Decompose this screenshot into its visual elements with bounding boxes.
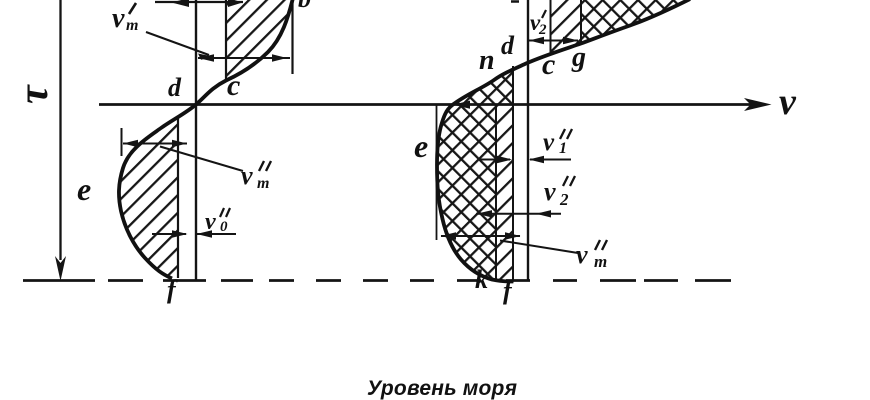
svg-text:c: c [542,48,555,81]
tau arrowhead down [55,256,66,281]
hatched area left profile below axis [119,116,178,279]
v axis arrowhead [744,98,772,111]
v''m dimension arrow right [441,235,520,237]
right profile band line g [580,0,582,44]
hatched band right profile above axis [551,0,582,55]
svg-text:Уровень моря: Уровень моря [367,377,517,400]
v''m dimension arrow left profile [123,143,187,145]
svg-text:v: v [543,129,555,156]
left profile line b [291,0,293,74]
svg-text:v: v [205,209,216,235]
v'm dimension arrow [198,57,290,59]
svg-text:2: 2 [538,22,547,38]
crosshatched lens right profile below axis [437,105,496,281]
top cropped dimension arrow left [155,1,243,3]
svg-text:τ: τ [11,84,57,104]
v'2 dimension arrow [528,40,578,42]
left profile tangent line at e [121,128,123,156]
svg-text:e: e [77,171,91,207]
svg-text:v: v [112,3,125,34]
svg-text:v: v [779,81,797,123]
svg-text:b: b [298,0,311,13]
tau dimension line [59,0,61,260]
svg-text:d: d [168,73,182,102]
right profile main vertical line [527,0,529,280]
right profile tangent line at e [436,104,438,240]
sea level dashed line [23,279,731,282]
svg-text:2: 2 [559,190,569,209]
hatched band right profile below axis [496,105,513,282]
arrowhead on axis at curve crossing [453,101,470,109]
hatched area left profile above axis [226,0,293,81]
v axis [99,103,760,106]
svg-text:v: v [576,240,588,269]
v''1 dimension arrows [480,159,510,161]
v'm leader line [146,32,209,55]
left profile main vertical line d-f [195,0,197,280]
right profile chord line n-f [512,66,514,282]
svg-text:c: c [227,69,240,102]
svg-text:n: n [479,45,495,76]
svg-text:g: g [571,42,586,73]
top cropped dash right [511,0,519,3]
v''2 dimension arrow [476,213,561,215]
right profile inner line below axis [495,105,497,281]
right profile S-curve [437,0,690,282]
v''m leader line left [160,147,243,172]
svg-text:e: e [414,128,428,164]
svg-text:v: v [241,161,253,190]
left profile S-curve [119,0,293,279]
v''0 dimension arrows [152,233,186,235]
v''m leader right [500,241,578,254]
crosshatched wedge right profile above axis left [452,68,513,106]
crosshatched area right profile top [581,0,690,44]
svg-text:v: v [544,177,556,206]
svg-text:m: m [594,252,607,271]
svg-text:m: m [126,17,138,34]
svg-text:1: 1 [559,140,567,157]
right profile hatch band line above axis [550,0,552,56]
left profile hatch boundary line below axis [177,116,179,279]
svg-text:d: d [501,31,515,60]
left profile hatch boundary line above axis [225,0,227,81]
svg-text:m: m [257,175,269,192]
svg-text:0: 0 [220,219,228,235]
svg-text:k: k [475,265,488,294]
